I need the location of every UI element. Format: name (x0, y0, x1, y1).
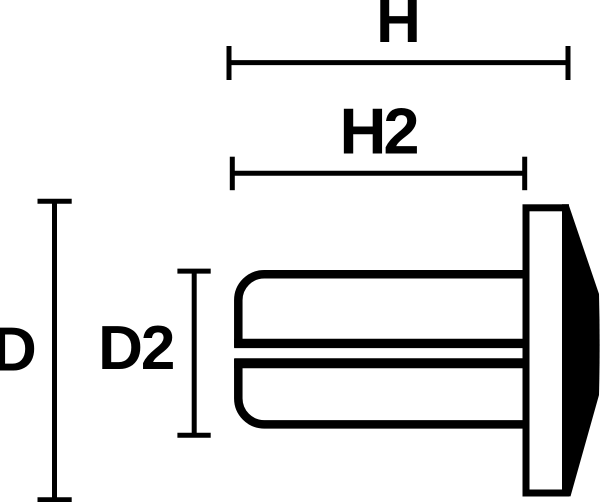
slot upper line (234, 339, 524, 348)
svg-text:D: D (0, 316, 37, 385)
dimension line H2 (232, 157, 524, 191)
svg-text:H2: H2 (339, 95, 417, 168)
svg-text:H: H (376, 0, 421, 56)
dimension line D (38, 201, 72, 500)
flange (washer head) (526, 208, 566, 493)
dimension line D2 (177, 271, 210, 435)
svg-text:D2: D2 (98, 314, 173, 383)
cone head (filled) (562, 204, 600, 496)
rivet body upper half outline (238, 274, 524, 343)
dimension line H (229, 46, 568, 80)
slot lower line (234, 358, 524, 368)
rivet body lower half outline (238, 363, 524, 424)
